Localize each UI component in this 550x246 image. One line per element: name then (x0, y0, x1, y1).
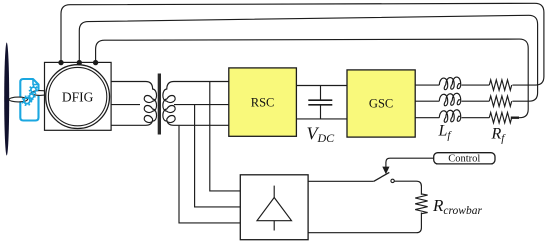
capacitor Vdc bottom stub (320, 106, 322, 119)
svg-text:RSC: RSC (251, 95, 275, 109)
capacitor plate bottom (308, 104, 332, 106)
resistor R_crowbar (415, 194, 427, 214)
node stator a (58, 60, 63, 65)
svg-text:Control: Control (448, 154, 480, 165)
crowbar diode stem top (273, 186, 275, 198)
wire crowbar return (308, 213, 421, 233)
gearbox gear 3 (30, 86, 38, 94)
control arrow head (382, 167, 389, 175)
wire gsc row 2 (415, 100, 489, 102)
capacitor plate top (308, 99, 332, 101)
wire control to switch (386, 158, 434, 167)
wire crowbar drop 2 (195, 105, 241, 207)
wire switch to Rcrowbar (394, 181, 421, 195)
capacitor Vdc top stub (320, 86, 322, 100)
inductor Lf row 2 (439, 93, 461, 106)
wire gsc row 1 (415, 84, 489, 86)
wire rotor middle tap right (174, 104, 229, 106)
svg-text:DFIG: DFIG (62, 90, 94, 105)
switch blade (374, 172, 390, 181)
transformer right winding (163, 82, 229, 126)
wire stator phase b (79, 15, 537, 101)
turbine blade (4, 43, 9, 156)
RSC box (229, 68, 297, 136)
resistor Rf row 1 (489, 80, 511, 90)
wire row3 thick stub (511, 116, 519, 118)
crowbar diode triangle (257, 198, 292, 221)
resistor Rf row 2 (489, 96, 511, 106)
svg-text:Rcrowbar: Rcrowbar (432, 196, 482, 217)
low-speed shaft (9, 97, 27, 102)
wire gsc row 3 (415, 117, 489, 119)
svg-text:GSC: GSC (369, 96, 393, 110)
control box (434, 153, 495, 164)
transformer core bar (158, 74, 161, 135)
gearbox gear 2 (28, 93, 34, 99)
high-speed shaft (31, 91, 48, 96)
DFIG rotor circle (48, 67, 106, 125)
wire dc link top (296, 85, 347, 87)
crowbar diode stem bottom (273, 221, 275, 231)
GSC box (347, 70, 415, 137)
inductor Lf row 3 (439, 110, 461, 123)
inductor Lf row 1 (439, 77, 461, 90)
DFIG frame (45, 62, 112, 130)
DFIG stator circle (46, 65, 110, 129)
wire rotor middle tap left (111, 104, 140, 106)
gearbox icon body (20, 79, 38, 121)
svg-text:Rf: Rf (491, 126, 507, 145)
wire dc link bottom (296, 118, 347, 120)
svg-text:VDC: VDC (307, 124, 336, 146)
gearbox gear 1 (23, 96, 32, 105)
wire stator phase c (96, 39, 529, 118)
node stator b (77, 60, 82, 65)
wire crowbar drop 3 (210, 82, 241, 191)
wire crowbar drop 1 (179, 126, 240, 223)
wire crowbar switch lead (308, 180, 374, 182)
transformer left winding (111, 82, 156, 126)
crowbar converter box (240, 175, 308, 240)
switch contact (391, 179, 394, 182)
svg-text:Lf: Lf (438, 123, 453, 142)
resistor Rf row 3 (489, 113, 511, 123)
wire stator phase a (61, 3, 544, 85)
gearbox icon folded corner (33, 79, 39, 85)
node stator c (93, 60, 98, 65)
